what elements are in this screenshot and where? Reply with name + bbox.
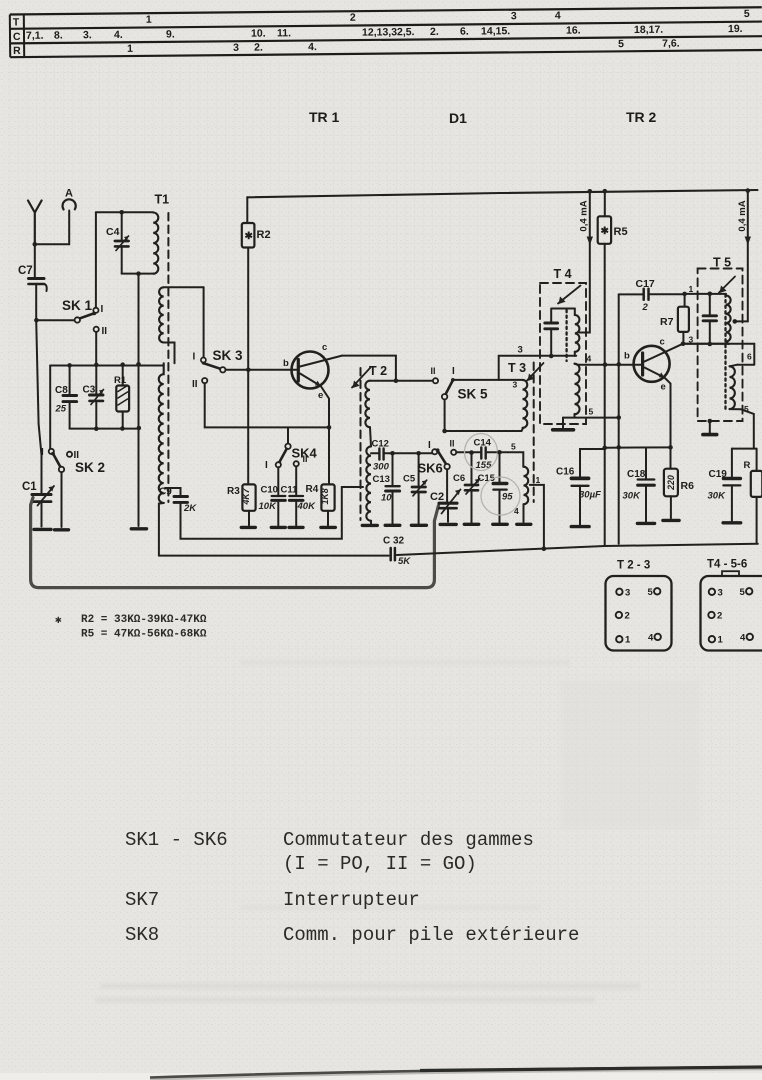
svg-text:C13: C13 [373,474,390,485]
capacitor C14 [465,434,498,472]
wire SK6 pivot down to C2 [446,469,448,503]
svg-text:2.: 2. [254,42,263,54]
svg-text:I: I [101,304,104,315]
svg-text:2.: 2. [430,26,439,38]
connector box T2-3 [606,560,672,651]
svg-text:10K: 10K [259,501,278,512]
capacitor C8 [55,366,77,429]
wire SK3-II down and right [205,383,329,427]
svg-text:SK 5: SK 5 [458,387,489,402]
svg-text:3: 3 [625,588,630,599]
svg-text:5: 5 [740,587,746,598]
wire R5 column [604,191,606,546]
switch SK5 [431,366,489,402]
svg-text:1: 1 [146,14,152,26]
capacitor C16 [556,446,607,527]
svg-text:SK 3: SK 3 [213,348,244,363]
svg-text:T: T [13,16,20,28]
wire C9 return to T2 tap [181,487,364,539]
svg-text:3: 3 [518,345,523,356]
wire SK6-II to C15 corner [456,452,523,466]
node SK1 left [34,318,39,323]
svg-text:3: 3 [233,42,239,54]
capacitor C4 [106,212,129,273]
wire emitter line to C18 R6 [605,446,671,448]
svg-text:R7: R7 [660,316,674,328]
svg-text:0,4 mA: 0,4 mA [737,200,748,231]
wire R2 down to R3 [247,248,249,485]
resistor R5 [598,216,628,244]
transformer T1 lower winding [159,363,164,503]
svg-text:C12: C12 [372,439,389,450]
svg-text:T 2 - 3: T 2 - 3 [617,560,650,572]
connector box T4-5-6 [701,559,762,651]
svg-text:1: 1 [718,635,724,646]
svg-text:SK7: SK7 [125,889,159,911]
svg-text:7,1.: 7,1. [26,30,44,42]
svg-text:C10: C10 [261,485,278,496]
switch SK4 [265,427,318,471]
legend text [125,829,579,946]
wire SK3 pivot to TR1 base [226,369,299,371]
svg-text:e: e [661,382,666,393]
svg-text:SK 1: SK 1 [62,298,93,313]
svg-text:1: 1 [127,43,133,55]
svg-text:T 4: T 4 [554,267,572,281]
svg-text:Commutateur des gammes: Commutateur des gammes [283,829,534,851]
wire antenna down to C7 [34,244,36,278]
svg-text:5: 5 [618,38,624,50]
wire C4 bottom to coil [122,273,154,275]
svg-text:A: A [65,188,73,200]
wire C17 branch vertical [618,294,620,543]
svg-text:C3: C3 [83,385,96,396]
transformer T4 [540,267,594,424]
svg-text:SK4: SK4 [292,446,318,461]
svg-text:1: 1 [625,635,631,646]
svg-text:SK8: SK8 [125,924,159,946]
svg-text:C2: C2 [430,491,444,503]
svg-text:T 3: T 3 [508,361,526,375]
transformer T1 middle winding [159,287,164,342]
svg-text:c: c [660,337,665,348]
svg-text:I: I [193,352,196,363]
transformer T1 primary coil [153,213,158,274]
node emitter junction [327,425,332,430]
capacitor C7 [18,265,47,291]
wire 0,4mA feed to T4 tap [580,191,590,333]
switch SK2 [41,447,105,530]
transformer T2 [352,364,387,525]
svg-text:4.: 4. [308,41,317,53]
svg-text:R1: R1 [114,375,127,386]
wire bus corner to R2 [246,197,248,223]
svg-text:10: 10 [381,493,392,504]
transistor TR1 [283,342,342,401]
svg-text:14,15.: 14,15. [481,25,510,37]
box left edge down to SK2 [49,366,51,450]
svg-text:C9: C9 [159,487,172,498]
wire TR2 collector line [683,344,754,365]
capacitor C19 [708,449,741,523]
svg-text:TR 1: TR 1 [309,109,340,125]
transistor TR2 [624,337,683,393]
wire SK5 pivot down to T3 bottom line [445,399,524,431]
svg-text:R2: R2 [257,229,271,241]
svg-text:I: I [452,366,455,377]
svg-text:R: R [13,45,21,57]
resistor R2 [242,223,271,248]
svg-text:II: II [431,366,436,376]
svg-text:5: 5 [511,442,516,452]
svg-text:✱: ✱ [55,615,62,627]
svg-text:II: II [102,326,108,337]
switch SK6 [418,439,457,476]
svg-text:C14: C14 [474,438,492,449]
resistor R1 [114,366,129,429]
svg-text:4: 4 [555,10,561,22]
svg-text:✱: ✱ [245,231,254,242]
svg-text:C6: C6 [453,473,465,484]
svg-text:18,17.: 18,17. [634,24,663,36]
resistor R8 [732,449,762,544]
svg-text:2: 2 [717,611,722,622]
capacitor C6 [453,450,480,524]
svg-text:4.: 4. [114,29,123,41]
svg-text:C: C [13,31,21,43]
svg-text:5: 5 [744,404,749,414]
svg-text:I: I [41,447,44,458]
svg-text:3.: 3. [83,29,92,41]
svg-text:10.: 10. [251,28,266,40]
svg-text:R: R [744,460,751,471]
wire SK1-II down to box [95,332,97,365]
svg-text:30µF: 30µF [579,490,601,501]
capacitor C18 [623,448,655,524]
wire T1 column down [138,274,140,526]
svg-text:T 5: T 5 [713,256,731,270]
capacitor C3 [83,366,104,429]
svg-text:e: e [318,390,323,401]
svg-text:C17: C17 [636,278,655,290]
wire T1 middle winding step [164,343,175,364]
svg-text:Comm. pour pile extérieure: Comm. pour pile extérieure [283,924,579,946]
svg-text:30K: 30K [708,491,727,502]
svg-text:40K: 40K [297,501,317,512]
node C4 top [119,210,124,215]
terminal A [36,188,76,245]
T1 middle winding top wire to SK3 [164,286,204,288]
svg-text:Interrupteur: Interrupteur [283,889,420,911]
svg-text:II: II [450,439,455,449]
svg-text:5: 5 [589,407,594,417]
wire C12 to SK6 line [391,452,433,454]
svg-text:T4 - 5-6: T4 - 5-6 [707,559,747,571]
svg-text:(I = PO, II = GO): (I = PO, II = GO) [283,853,477,875]
section labels [309,109,657,126]
wire TR2 emitter down to R6 [665,378,671,469]
svg-text:1: 1 [689,284,694,294]
svg-text:4: 4 [740,633,746,644]
chassis line with C32 to right bus [159,544,758,556]
svg-text:✱: ✱ [601,226,610,237]
svg-text:8.: 8. [54,29,63,41]
box C8 C3 R1 top line [50,365,164,367]
capacitor C1 [22,481,54,529]
svg-text:R4: R4 [306,484,319,495]
capacitor C11 [281,466,317,527]
svg-text:T1: T1 [155,193,170,207]
svg-text:7,6.: 7,6. [662,38,680,50]
resistor R3 [227,484,256,527]
wire T2 top to SK5 [370,380,433,382]
svg-text:b: b [283,358,289,369]
svg-text:5: 5 [648,587,654,598]
resistor R7 [660,284,694,345]
wire collector bottom line in T5 [683,343,729,345]
svg-text:30K: 30K [623,491,642,502]
svg-text:b: b [624,351,630,362]
wire SK5-I line to T3 top [455,379,523,381]
svg-text:C7: C7 [18,265,33,277]
legend asterisk note [55,614,207,641]
capacitor C9 [159,487,197,515]
ground bar T1 column [131,527,146,530]
top reference table [10,7,762,57]
svg-text:C4: C4 [106,226,120,238]
MAIN SCHEMATIC [18,188,762,651]
svg-text:1: 1 [536,475,541,485]
ground T4 [562,418,564,428]
svg-text:C8: C8 [55,385,68,396]
svg-text:4: 4 [587,354,592,364]
svg-text:6: 6 [747,352,752,362]
thick gang wire C1-C2 [31,498,439,588]
svg-text:SK6: SK6 [418,461,443,476]
capacitor C12 [371,439,391,473]
node antenna/A junction [33,242,38,247]
top supply bus [247,190,757,197]
capacitor C5 [403,451,427,525]
svg-text:TR 2: TR 2 [626,109,657,125]
svg-text:R5: R5 [614,226,628,238]
svg-text:3: 3 [511,10,517,22]
svg-text:16.: 16. [566,25,581,37]
svg-text:4: 4 [648,633,654,644]
wire top T1 line [96,211,153,213]
switch SK1 [36,298,107,337]
switch SK3 [192,287,243,390]
svg-text:R3: R3 [227,486,240,497]
wire SK1-I up [95,212,97,307]
svg-text:2: 2 [642,302,649,313]
svg-text:C19: C19 [709,469,728,480]
svg-text:0,4 mA: 0,4 mA [579,200,590,231]
svg-text:5: 5 [744,8,750,20]
antenna [28,201,42,245]
wire TR1 emitter down [321,386,329,484]
transformer T5 [685,256,754,449]
ground T5 [708,419,713,424]
svg-text:C18: C18 [627,469,646,480]
wire T4 pin5 line [563,414,619,418]
resistor R4 [306,484,336,527]
svg-text:2: 2 [625,611,630,622]
svg-text:300: 300 [373,462,390,473]
svg-text:5K: 5K [398,556,411,567]
svg-text:9.: 9. [166,28,175,40]
svg-text:11.: 11. [277,27,291,39]
node base line junction [246,368,251,373]
svg-text:19.: 19. [728,23,743,35]
wire C7 down to C1 [36,284,41,494]
capacitor C15 [478,450,521,524]
svg-text:155: 155 [476,460,493,471]
svg-text:I: I [428,440,431,451]
svg-text:C5: C5 [403,474,416,485]
wire T1 winding bottom to chassis line [159,503,164,556]
svg-text:C16: C16 [556,467,575,478]
node T1 primary bottom [136,271,141,276]
svg-text:R2 = 33KΩ-39KΩ-47KΩ: R2 = 33KΩ-39KΩ-47KΩ [81,614,207,626]
node dots on box [67,363,72,368]
svg-text:c: c [322,342,327,353]
svg-text:12,13,32,5.: 12,13,32,5. [362,26,415,39]
capacitor C2 [430,490,461,525]
svg-text:C1: C1 [22,481,37,493]
svg-text:C 32: C 32 [383,536,405,547]
svg-text:3: 3 [718,588,723,599]
page bottom edge [0,1073,762,1080]
wire 0,4mA feed right [747,191,749,321]
svg-text:3: 3 [513,380,518,390]
svg-text:R6: R6 [681,480,695,492]
capacitor C10 [259,467,286,527]
svg-text:4K7: 4K7 [241,487,251,505]
svg-text:D1: D1 [449,110,467,126]
svg-text:SK 2: SK 2 [75,460,105,475]
svg-text:T 2: T 2 [369,364,387,378]
svg-text:2K: 2K [183,503,197,514]
svg-text:SK1 - SK6: SK1 - SK6 [125,829,228,851]
svg-text:2: 2 [350,12,356,24]
capacitor C13 [373,451,400,525]
svg-text:220: 220 [666,475,676,491]
svg-text:6.: 6. [460,26,469,38]
svg-text:25: 25 [55,404,67,415]
svg-text:I: I [265,460,268,471]
transformer T3 [508,361,544,550]
T1 core [167,213,169,502]
svg-text:95: 95 [502,492,513,503]
wire pin3 branch [499,356,577,380]
capacitor C17 [619,278,685,313]
svg-text:1K8: 1K8 [320,488,330,504]
svg-text:II: II [192,379,198,390]
svg-text:R5 = 47KΩ-56KΩ-68KΩ: R5 = 47KΩ-56KΩ-68KΩ [81,629,207,641]
wire TR1 collector to T2 [342,356,396,381]
resistor R6 [663,469,694,521]
svg-text:C11: C11 [281,485,299,496]
box bottom line [70,428,139,430]
capacitor C32 [383,536,411,568]
wire T4 pin4 line to TR2 base [575,364,643,365]
